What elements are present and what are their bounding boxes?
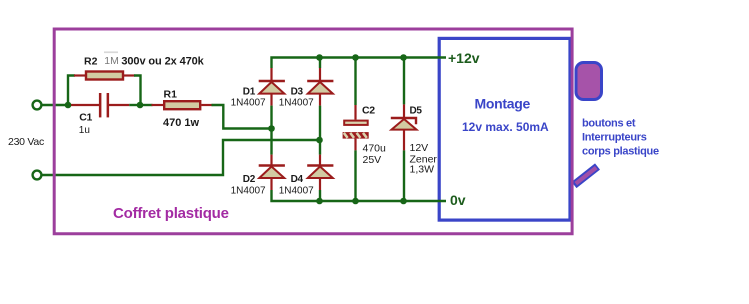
wire C2 to bottom rail	[354, 150, 356, 201]
svg-text:12v max. 50mA: 12v max. 50mA	[462, 120, 549, 134]
diode D1	[259, 68, 285, 106]
svg-text:300v ou 2x 470k: 300v ou 2x 470k	[121, 56, 204, 68]
push-button icon (purple rounded rect)	[576, 63, 602, 100]
wire top rail +12v	[272, 58, 447, 69]
svg-text:C1: C1	[79, 112, 92, 124]
diode D2	[259, 155, 285, 190]
faded strike above 1M	[104, 51, 118, 53]
svg-text:Coffret plastique: Coffret plastique	[113, 205, 229, 222]
zener diode D5	[391, 104, 417, 150]
svg-text:1N4007: 1N4007	[279, 98, 314, 109]
node bottom rail at D4	[316, 198, 323, 205]
wire node B to R1	[140, 104, 153, 106]
wire R2 right pin (red stub)	[123, 74, 135, 76]
resistor R2	[86, 72, 123, 80]
node bottom rail at D5	[400, 198, 407, 205]
svg-text:D1: D1	[243, 87, 256, 98]
svg-text:boutons et: boutons et	[582, 118, 636, 130]
wire node A up to R2 level	[68, 76, 75, 106]
wire D3 anode to node D (green)	[319, 106, 321, 155]
wire terminal-top to node A	[42, 104, 68, 106]
wire R1 to bridge left node C	[212, 105, 272, 129]
svg-text:1N4007: 1N4007	[231, 98, 266, 109]
svg-text:1N4007: 1N4007	[279, 186, 314, 197]
node B junction	[137, 102, 144, 109]
svg-text:1,3W: 1,3W	[410, 164, 435, 176]
svg-text:R1: R1	[164, 88, 178, 100]
node D junction (D3/D4)	[316, 137, 323, 144]
svg-text:D2: D2	[243, 174, 256, 185]
toggle lever icon (diagonal stick)	[574, 167, 598, 186]
wire top rail to C2	[354, 58, 356, 106]
svg-text:0v: 0v	[450, 192, 466, 208]
diode D4	[307, 155, 333, 190]
terminal top (230 Vac phase)	[33, 101, 42, 110]
svg-text:D4: D4	[291, 174, 304, 185]
svg-text:25V: 25V	[363, 154, 382, 166]
resistor R1	[164, 101, 200, 109]
capacitor C2	[343, 105, 369, 150]
capacitor C1	[99, 93, 109, 117]
wire C1 right pin	[109, 104, 129, 106]
terminal bottom (230 Vac neutral)	[33, 171, 42, 180]
svg-text:corps plastique: corps plastique	[582, 146, 659, 158]
svg-text:470 1w: 470 1w	[163, 117, 200, 129]
wire D1 anode to node C (green)	[270, 106, 272, 155]
svg-text:12V: 12V	[410, 142, 429, 154]
svg-text:R2: R2	[84, 55, 98, 67]
module box Montage (blue border)	[439, 38, 570, 220]
node C junction (D1/D2)	[268, 125, 275, 132]
svg-text:Montage: Montage	[475, 95, 531, 111]
svg-text:1u: 1u	[79, 125, 90, 136]
svg-text:230 Vac: 230 Vac	[8, 136, 44, 148]
enclosure box Coffret plastique (purple border)	[54, 29, 572, 234]
wire R1 right pin (red stub)	[201, 104, 212, 106]
node top rail at D3	[316, 54, 323, 61]
wire D4 cathode to bottom rail	[319, 190, 321, 201]
wire terminal-bottom to bridge right node D	[42, 140, 320, 175]
wire top rail to D3	[319, 58, 321, 69]
wire into node B	[129, 104, 140, 106]
node A junction	[65, 102, 72, 109]
svg-text:1M: 1M	[104, 55, 119, 67]
wire bottom rail 0v	[272, 190, 447, 201]
svg-text:470u: 470u	[363, 143, 387, 155]
wire node A to C1 left pin	[68, 104, 99, 106]
wire R1 left pin (red stub)	[152, 104, 165, 106]
svg-text:D5: D5	[410, 106, 423, 117]
node top rail at D5	[400, 54, 407, 61]
svg-text:Interrupteurs: Interrupteurs	[582, 131, 647, 143]
node top rail at C2	[352, 54, 359, 61]
wire R2 left pin (red stub)	[74, 74, 86, 76]
wire D5 to bottom rail	[403, 150, 405, 201]
wire top rail to D5	[403, 58, 405, 105]
wire R2 right down to node B	[134, 76, 141, 106]
diode D3	[307, 68, 333, 106]
svg-text:C2: C2	[362, 104, 375, 116]
svg-text:1N4007: 1N4007	[231, 186, 266, 197]
svg-text:D3: D3	[291, 87, 304, 98]
node bottom rail at C2	[352, 198, 359, 205]
svg-text:+12v: +12v	[448, 50, 480, 66]
